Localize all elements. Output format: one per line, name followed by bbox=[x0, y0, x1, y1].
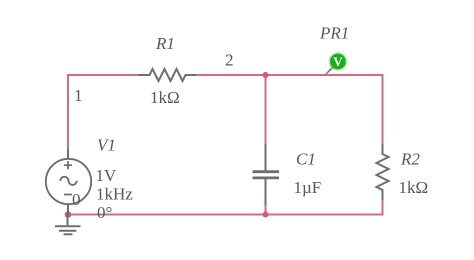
svg-text:V: V bbox=[333, 54, 343, 69]
junction node 2 bbox=[263, 72, 269, 78]
svg-text:R1: R1 bbox=[155, 34, 175, 53]
probe PR1 tail bbox=[324, 66, 334, 76]
svg-text:0: 0 bbox=[72, 190, 81, 209]
ground bbox=[55, 215, 81, 234]
wire top horizontal (R1 to node 2 to right corner) bbox=[195, 74, 384, 76]
wire left vertical (node 1) bbox=[67, 74, 69, 150]
wire right vertical upper (node 2 to R2) bbox=[382, 74, 384, 145]
probe PR1 bbox=[329, 52, 348, 71]
wire middle vertical lower (C1 to node 0) bbox=[265, 204, 267, 215]
svg-text:1V: 1V bbox=[96, 166, 118, 185]
svg-text:1kΩ: 1kΩ bbox=[399, 178, 429, 197]
wire right vertical lower (R2 to bottom) bbox=[382, 199, 384, 216]
svg-text:0°: 0° bbox=[97, 203, 112, 222]
wire middle vertical upper (node 2 to C1) bbox=[265, 75, 267, 145]
svg-text:1kHz: 1kHz bbox=[96, 184, 133, 203]
resistor R1 bbox=[139, 69, 196, 81]
svg-text:PR1: PR1 bbox=[319, 24, 349, 43]
resistor R2 bbox=[377, 144, 389, 200]
capacitor C1 bbox=[253, 144, 280, 205]
svg-text:1: 1 bbox=[74, 86, 83, 105]
svg-text:1µF: 1µF bbox=[294, 178, 322, 197]
AC source V1 bbox=[46, 149, 91, 215]
svg-text:R2: R2 bbox=[400, 149, 420, 168]
wire bottom horizontal (node 0) bbox=[68, 214, 384, 216]
junction node 0 at source/ground bbox=[65, 211, 72, 218]
svg-text:2: 2 bbox=[225, 51, 234, 70]
svg-text:V1: V1 bbox=[97, 136, 116, 155]
svg-text:1kΩ: 1kΩ bbox=[150, 88, 180, 107]
wire top-left horizontal (node 1 to R1) bbox=[67, 74, 140, 76]
svg-text:C1: C1 bbox=[296, 149, 316, 168]
junction node 0 at C1 bottom bbox=[263, 212, 269, 218]
